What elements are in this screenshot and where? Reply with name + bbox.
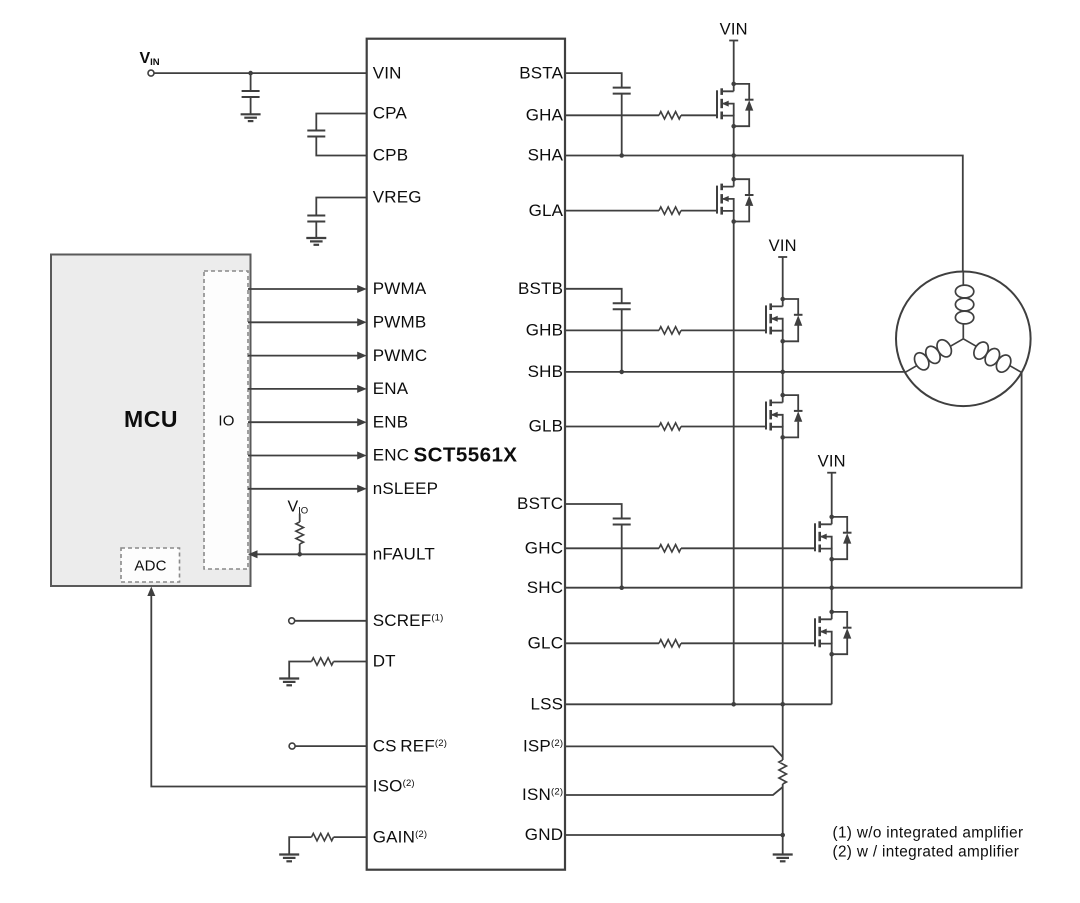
svg-text:PWMA: PWMA bbox=[373, 279, 427, 298]
svg-text:(2) w / integrated amplifier: (2) w / integrated amplifier bbox=[833, 844, 1020, 861]
svg-text:ENA: ENA bbox=[373, 379, 409, 398]
svg-text:VREG: VREG bbox=[373, 188, 422, 207]
svg-text:PWMC: PWMC bbox=[373, 346, 428, 365]
svg-text:ADC: ADC bbox=[134, 558, 166, 575]
svg-text:GHC: GHC bbox=[525, 539, 563, 558]
svg-text:SHC: SHC bbox=[527, 578, 564, 597]
svg-text:SHA: SHA bbox=[528, 146, 564, 165]
svg-text:GLB: GLB bbox=[529, 417, 564, 436]
svg-text:GLA: GLA bbox=[529, 201, 564, 220]
svg-text:VIN: VIN bbox=[818, 453, 846, 471]
svg-text:GHB: GHB bbox=[526, 321, 563, 340]
svg-text:SCT5561X: SCT5561X bbox=[414, 444, 518, 467]
svg-text:GHA: GHA bbox=[526, 106, 564, 125]
svg-text:VIN: VIN bbox=[720, 20, 748, 38]
svg-text:CPA: CPA bbox=[373, 104, 408, 123]
svg-text:ENC: ENC bbox=[373, 446, 410, 465]
svg-text:BSTA: BSTA bbox=[519, 63, 563, 82]
svg-text:CPB: CPB bbox=[373, 146, 409, 165]
svg-text:VIN: VIN bbox=[373, 63, 402, 82]
svg-text:IO: IO bbox=[218, 413, 234, 430]
svg-text:BSTC: BSTC bbox=[517, 494, 563, 513]
svg-text:PWMB: PWMB bbox=[373, 313, 427, 332]
svg-text:nFAULT: nFAULT bbox=[373, 545, 435, 564]
svg-text:DT: DT bbox=[373, 652, 396, 671]
svg-text:BSTB: BSTB bbox=[518, 279, 563, 298]
svg-text:nSLEEP: nSLEEP bbox=[373, 479, 438, 498]
svg-text:MCU: MCU bbox=[124, 406, 178, 432]
svg-text:ENB: ENB bbox=[373, 412, 409, 431]
svg-text:LSS: LSS bbox=[530, 695, 563, 714]
svg-text:SHB: SHB bbox=[528, 362, 564, 381]
svg-text:GND: GND bbox=[525, 825, 563, 844]
svg-text:VIN: VIN bbox=[769, 237, 797, 255]
svg-text:(1) w/o integrated amplifier: (1) w/o integrated amplifier bbox=[833, 825, 1024, 842]
svg-text:GLC: GLC bbox=[528, 634, 564, 653]
